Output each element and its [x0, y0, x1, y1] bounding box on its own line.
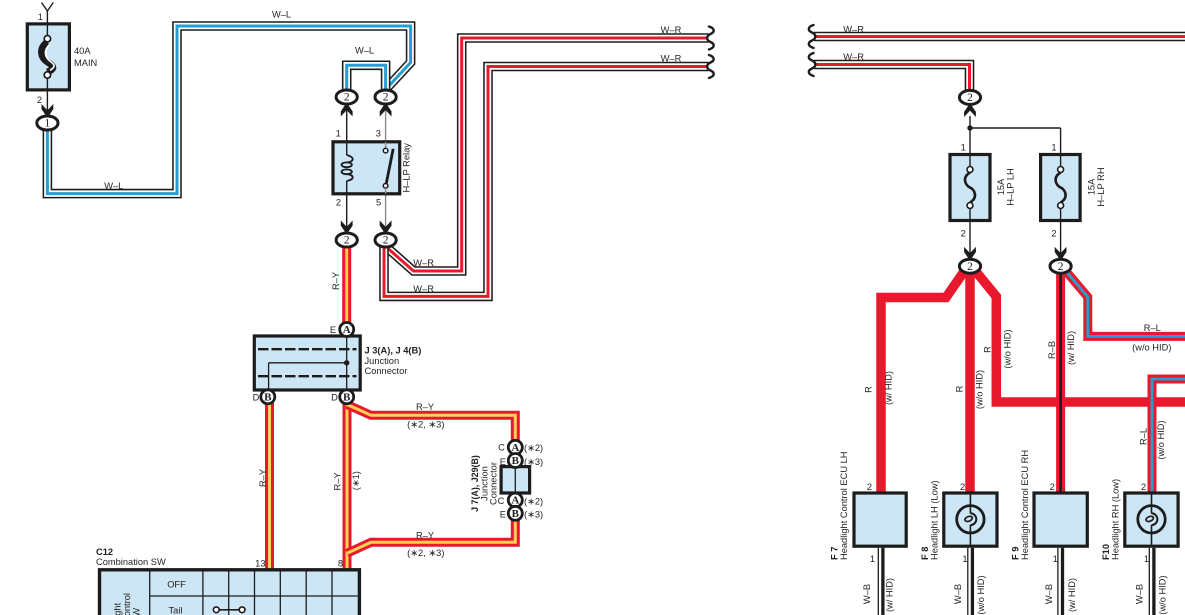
svg-text:(w/ HID): (w/ HID) [1067, 578, 1077, 612]
svg-text:2: 2 [1050, 482, 1055, 492]
svg-text:A: A [511, 442, 519, 454]
svg-text:E: E [500, 457, 506, 467]
svg-text:2: 2 [960, 482, 965, 492]
svg-text:8: 8 [338, 559, 343, 569]
svg-text:W–L: W–L [104, 181, 123, 191]
svg-text:(∗2): (∗2) [524, 496, 543, 506]
svg-text:(w/ HID): (w/ HID) [884, 578, 894, 612]
svg-text:R: R [983, 346, 993, 353]
svg-text:W–R: W–R [661, 25, 682, 35]
svg-text:15A: 15A [1086, 178, 1096, 195]
svg-text:Tail: Tail [169, 606, 183, 615]
svg-text:A: A [343, 324, 351, 336]
svg-text:Headlight RH (Low): Headlight RH (Low) [1111, 479, 1121, 560]
svg-text:(w/o HID): (w/o HID) [975, 370, 985, 409]
svg-text:W–R: W–R [843, 52, 864, 62]
svg-text:C: C [498, 443, 505, 453]
svg-text:2: 2 [1141, 482, 1146, 492]
svg-text:D: D [331, 393, 338, 403]
svg-text:1: 1 [962, 554, 967, 564]
svg-text:W–R: W–R [843, 25, 864, 35]
svg-text:1: 1 [1051, 142, 1056, 152]
svg-text:(w/o HID): (w/o HID) [976, 575, 986, 614]
svg-text:1: 1 [45, 118, 51, 130]
svg-text:B: B [512, 455, 520, 467]
svg-text:W–B: W–B [862, 584, 872, 604]
svg-text:Connector: Connector [365, 366, 408, 376]
svg-text:(w/o HID): (w/o HID) [1156, 420, 1166, 459]
svg-text:D: D [253, 393, 260, 403]
svg-text:R–Y: R–Y [333, 472, 343, 490]
svg-text:R: R [864, 386, 874, 393]
svg-text:Headlight Control ECU LH: Headlight Control ECU LH [839, 451, 849, 560]
svg-text:W–B: W–B [953, 584, 963, 604]
svg-text:Headlight LH (Low): Headlight LH (Low) [930, 480, 940, 560]
svg-text:(w/ HID): (w/ HID) [883, 371, 893, 405]
svg-text:C12: C12 [96, 547, 113, 557]
svg-text:R–L: R–L [1144, 323, 1161, 333]
svg-text:(∗2, ∗3): (∗2, ∗3) [407, 548, 444, 558]
svg-text:H–LP LH: H–LP LH [1005, 168, 1015, 206]
svg-text:3: 3 [376, 129, 381, 139]
svg-text:Light: Light [112, 602, 122, 615]
svg-text:W–L: W–L [355, 45, 374, 55]
svg-text:1: 1 [1053, 554, 1058, 564]
svg-text:2: 2 [867, 482, 872, 492]
svg-text:W–R: W–R [413, 284, 434, 294]
svg-text:2: 2 [967, 261, 973, 273]
svg-text:15A: 15A [996, 178, 1006, 195]
svg-text:2: 2 [383, 235, 389, 247]
svg-text:(∗2): (∗2) [524, 443, 543, 453]
svg-text:W–B: W–B [1044, 584, 1054, 604]
svg-text:E: E [500, 509, 506, 519]
svg-text:(w/o HID): (w/o HID) [1158, 575, 1168, 614]
svg-text:5: 5 [376, 198, 381, 208]
svg-text:2: 2 [344, 235, 350, 247]
svg-text:2: 2 [344, 92, 350, 104]
svg-text:(∗1): (∗1) [351, 471, 361, 490]
svg-text:R–L: R–L [1139, 428, 1149, 445]
svg-text:2: 2 [37, 95, 42, 105]
svg-text:2: 2 [1051, 228, 1056, 238]
svg-text:Headlight Control ECU RH: Headlight Control ECU RH [1020, 450, 1030, 560]
svg-text:R: R [955, 385, 965, 392]
svg-text:1: 1 [38, 12, 43, 22]
svg-text:(w/ HID): (w/ HID) [1066, 331, 1076, 365]
svg-text:W–R: W–R [413, 258, 434, 268]
svg-text:13: 13 [255, 559, 265, 569]
svg-text:OFF: OFF [167, 580, 186, 590]
svg-text:(∗3): (∗3) [524, 457, 543, 467]
svg-text:2: 2 [1058, 261, 1064, 273]
svg-text:Junction: Junction [365, 356, 400, 366]
svg-text:R–Y: R–Y [258, 469, 268, 487]
svg-text:40A: 40A [74, 46, 91, 56]
svg-text:H–LP RH: H–LP RH [1096, 167, 1106, 206]
svg-text:Control: Control [122, 593, 132, 615]
svg-text:Combination SW: Combination SW [96, 557, 166, 567]
svg-text:W–L: W–L [272, 10, 291, 20]
svg-text:(∗2, ∗3): (∗2, ∗3) [407, 420, 444, 430]
svg-text:R–Y: R–Y [416, 402, 434, 412]
svg-text:J 3(A), J 4(B): J 3(A), J 4(B) [365, 345, 422, 355]
svg-text:2: 2 [961, 228, 966, 238]
svg-text:(∗3): (∗3) [524, 510, 543, 520]
svg-text:W–R: W–R [661, 53, 682, 63]
svg-text:1: 1 [336, 129, 341, 139]
svg-text:B: B [343, 391, 351, 403]
svg-text:1: 1 [961, 142, 966, 152]
svg-text:2: 2 [383, 92, 389, 104]
svg-text:R–Y: R–Y [331, 272, 341, 290]
svg-text:SW: SW [132, 608, 142, 615]
svg-text:E: E [330, 325, 336, 335]
svg-text:(w/o HID): (w/o HID) [1132, 343, 1171, 353]
svg-text:W–B: W–B [1135, 584, 1145, 604]
svg-text:R–B: R–B [1047, 341, 1057, 359]
svg-text:B: B [512, 508, 520, 520]
svg-text:(w/o HID): (w/o HID) [1003, 329, 1013, 368]
svg-text:MAIN: MAIN [74, 58, 97, 68]
svg-text:H–LP Relay: H–LP Relay [402, 143, 412, 193]
svg-text:2: 2 [967, 92, 973, 104]
svg-text:1: 1 [1144, 554, 1149, 564]
svg-text:Connector: Connector [489, 462, 499, 505]
svg-text:R–Y: R–Y [416, 531, 434, 541]
svg-text:1: 1 [870, 554, 875, 564]
svg-text:2: 2 [336, 198, 341, 208]
svg-text:B: B [264, 391, 272, 403]
svg-text:C: C [498, 496, 505, 506]
